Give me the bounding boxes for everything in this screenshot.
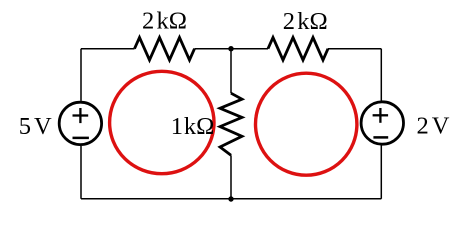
svg-text:1kΩ: 1kΩ [171,113,215,140]
svg-text:2kΩ: 2kΩ [142,8,187,35]
svg-text:2kΩ: 2kΩ [283,8,328,35]
svg-text:2V: 2V [417,112,450,139]
svg-text:5V: 5V [19,113,52,140]
